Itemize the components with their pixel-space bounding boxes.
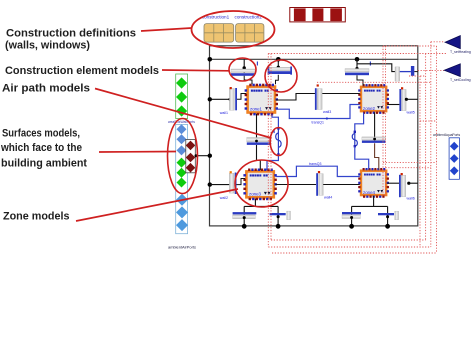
wire wall B to zone1 [276,75,279,85]
wire zone1 to wall3 [276,94,315,101]
svg-text:Construction definitions: Construction definitions [6,27,136,39]
svg-text:wall4: wall4 [324,196,332,200]
svg-text:wall1: wall1 [220,111,228,115]
construction element wall2 (left of zone3) [210,171,245,200]
wire wall U2 to zone4 [375,143,379,169]
wire wall U1 to zone3 [257,145,261,170]
air path transQ1 wire (blue) [276,105,360,125]
construction element wall D (top right) [357,64,418,81]
annotation ellipse: surfaces strip [168,119,198,194]
construction element wall U2 (below zone2) [362,137,386,143]
construction element wall U1 (below zone1) [247,138,271,145]
svg-text:zone1: zone1 [250,107,263,112]
annotation ellipse: wall B [265,60,297,92]
svg-text:wall2: wall2 [220,196,228,200]
wire: top ambient bus [210,58,418,60]
construction element wall B1 (bottom, below zone3) [233,212,257,229]
surfaces to ambient box (maroon diamonds) [186,139,196,172]
annotation line: construction definitions [141,28,192,31]
construction definition construction2 [235,15,264,42]
annotation ellipse: air path [270,128,287,156]
construction element wall5 (right of zone2) [387,87,418,114]
annotation ellipse: construction definitions [192,11,275,48]
svg-text:transQ1: transQ1 [312,121,325,125]
wire wall A to zone1 [244,76,252,84]
wire wall3 to zone2 [322,93,360,95]
svg-text:zone2: zone2 [363,106,376,111]
annotation line: construction element models [162,69,229,72]
wire wall4 to zone4 [323,184,360,186]
svg-text:weaBusWallPorts: weaBusWallPorts [168,120,195,124]
annotation line: air path models [95,89,272,139]
node: junctions on top wire [208,57,360,62]
zone model zone4 [358,168,389,198]
label: construction element models [5,65,159,77]
label: air path models [2,83,90,95]
air path model AP1 (circled) [267,114,281,170]
wire wall C to zone2 [357,75,363,85]
wire zone1 down [256,114,258,138]
surfaces strip (blue/green diamonds) [168,124,196,249]
wire zone4 down [352,196,388,227]
construction element wall B4 (bottom) [378,211,399,229]
construction element wall C (top) [345,59,371,75]
construction element wall B3 (bottom, below zone4) [342,212,361,229]
model frame (building boundary) [210,46,418,226]
zone model zone2 [358,84,389,114]
svg-text:Construction element models: Construction element models [5,65,159,77]
svg-text:T_setCooling: T_setCooling [450,78,471,82]
svg-text:zone3: zone3 [249,191,262,196]
svg-text:building ambient: building ambient [1,158,87,170]
svg-text:Zone models: Zone models [3,211,70,223]
label: zone models [3,211,70,223]
svg-text:ambientAirPorts: ambientAirPorts [168,246,196,250]
construction element wall1 (left of zone1) [208,87,247,115]
wire zone3 down [244,199,278,227]
svg-text:ambientAquaPorts: ambientAquaPorts [433,133,460,137]
svg-text:T_setHeating: T_setHeating [450,50,471,54]
svg-text:zone4: zone4 [363,190,376,195]
air path transQ3 wire (blue) [275,162,359,177]
air path models strip (green diamonds) [168,74,195,124]
wire zone3 to wall4 [275,184,316,186]
annotation line: zone models [76,189,238,221]
zone model zone3 [243,169,276,201]
label: construction definitions [5,27,136,51]
construction element wall B (top, circled) [268,59,292,74]
construction definition construction1 [202,15,234,42]
wall layers icon (top right) [290,8,346,22]
air path model AP2 [352,112,368,169]
annotation ellipse: zone3 [235,160,288,207]
svg-text:Air path models: Air path models [2,83,90,95]
construction element wall A (top, circled) [231,59,258,75]
wire zone2 down [374,112,376,137]
svg-text:(walls, windows): (walls, windows) [5,40,90,52]
construction element wall4 (between zone3 and zone4) [316,171,332,200]
input T_setHeating [445,36,471,55]
label: surfaces models [0,128,87,170]
construction element wall3 (between zone1 and zone2) [315,84,331,114]
ambient aqua ports strip (right) [433,133,460,179]
construction element wall6 (right of zone4) [387,173,417,201]
zone model zone1 [245,84,278,116]
svg-text:wall3: wall3 [323,110,331,114]
svg-text:which face to the: which face to the [0,142,82,154]
input T_setCooling [444,64,470,82]
svg-text:wall6: wall6 [407,197,415,201]
construction element wall B2 (bottom) [270,211,291,229]
wire: surfaces box to frame [195,154,213,187]
svg-text:Surfaces models,: Surfaces models, [2,128,80,140]
annotation line: surfaces models [99,151,176,154]
red dotted connection overlay [268,42,447,253]
annotation ellipse: wall A [229,58,256,81]
svg-text:wall5: wall5 [407,111,415,115]
svg-text:transQ3: transQ3 [309,162,322,166]
